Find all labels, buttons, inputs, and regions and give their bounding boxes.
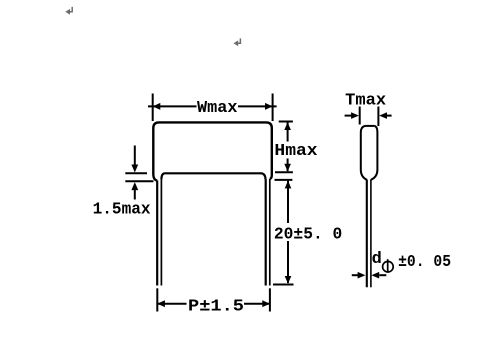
capacitor body (front view) outline	[153, 122, 271, 180]
svg-text:d: d	[372, 250, 382, 269]
svg-text:1.5max: 1.5max	[93, 200, 151, 219]
Wmax dimension	[148, 94, 277, 122]
Tmax dimension	[345, 107, 392, 127]
paragraph return mark 2	[234, 38, 241, 46]
svg-text:Wmax: Wmax	[197, 99, 238, 118]
P±1.5 dimension	[157, 288, 270, 311]
phi diameter symbol	[383, 259, 394, 272]
svg-text:Tmax: Tmax	[345, 92, 386, 111]
capacitor body (side view) capsule	[361, 126, 378, 180]
Hmax dimension	[275, 122, 293, 173]
paragraph return mark 1	[65, 7, 72, 15]
20±5.0 dimension	[273, 180, 294, 285]
svg-text:±0. 05: ±0. 05	[398, 253, 451, 272]
svg-text:P±1.5: P±1.5	[188, 298, 244, 317]
d dia ±0.05 dimension	[352, 274, 387, 276]
svg-text:Hmax: Hmax	[274, 142, 317, 161]
lead (side view)	[367, 180, 371, 288]
body bottom edge with lead exit arcs	[161, 173, 265, 179]
left lead (front view)	[157, 179, 161, 286]
right lead (front view)	[266, 179, 270, 286]
svg-text:20±5. 0: 20±5. 0	[274, 226, 342, 245]
1.5max dimension	[125, 146, 153, 200]
